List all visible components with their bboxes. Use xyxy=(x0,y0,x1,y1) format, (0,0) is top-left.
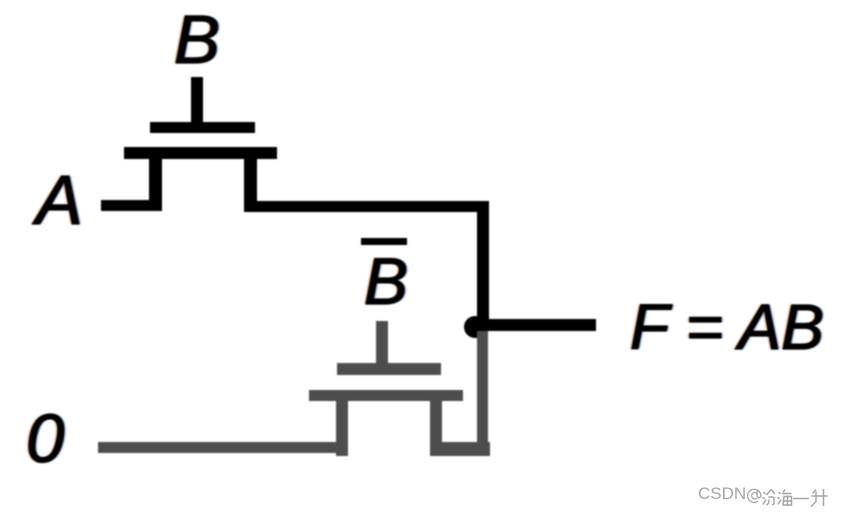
watermark @ and CJK glyphs xyxy=(746,484,841,508)
label A (input) xyxy=(36,165,83,235)
transistor Q1 drain leg xyxy=(244,158,257,211)
wire 0 to Q2 source xyxy=(98,442,348,453)
overbar of B-bar label xyxy=(361,238,407,245)
wire vertical down to node F xyxy=(477,201,489,331)
wire A to Q1 source xyxy=(101,200,162,211)
transistor Q1 (NMOS, gate B) gate stem xyxy=(191,77,203,123)
char sheng xyxy=(811,489,828,507)
transistor Q2 gate bar xyxy=(337,363,441,375)
transistor Q2 source leg xyxy=(336,400,348,456)
label B-bar (gate of Q2) xyxy=(364,248,408,314)
at sign xyxy=(748,489,761,502)
watermark CSDN xyxy=(698,484,746,504)
wire Q1 drain to corner xyxy=(244,201,489,212)
wire node F to output xyxy=(476,319,596,331)
transistor Q1 gate bar xyxy=(150,122,255,133)
transistor Q1 source leg xyxy=(149,158,162,211)
transistor Q2 channel bar xyxy=(309,390,463,401)
char cang xyxy=(763,490,776,506)
label B (gate of Q1) xyxy=(174,5,220,74)
label 0 (input tied low) xyxy=(26,404,64,473)
node F junction dot xyxy=(464,316,486,338)
label F = AB (output) xyxy=(630,295,824,359)
transistor Q2 drain leg xyxy=(430,400,442,456)
wire Q2 drain up to node F xyxy=(477,331,488,456)
char yi xyxy=(793,498,809,500)
wire Q2 drain bottom segment xyxy=(430,442,490,456)
char hai xyxy=(778,490,793,507)
transistor Q2 (NMOS, gate B-bar) gate stem xyxy=(376,321,388,364)
transistor Q1 channel bar xyxy=(124,147,277,159)
